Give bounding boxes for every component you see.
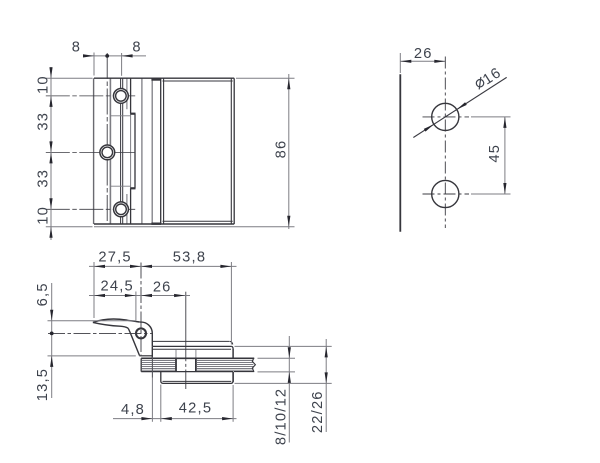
svg-text:26: 26 [153,279,172,295]
svg-text:8/10/12: 8/10/12 [273,388,289,445]
svg-text:26: 26 [414,46,433,62]
svg-text:8: 8 [72,39,81,55]
svg-text:4,8: 4,8 [121,402,145,418]
svg-text:13,5: 13,5 [35,368,51,401]
svg-text:10: 10 [35,206,51,225]
svg-text:22/26: 22/26 [310,390,326,433]
svg-text:42,5: 42,5 [179,401,212,417]
svg-text:27,5: 27,5 [98,250,131,266]
svg-text:24,5: 24,5 [101,278,134,294]
svg-text:33: 33 [35,112,51,131]
svg-text:53,8: 53,8 [173,250,206,266]
svg-text:33: 33 [35,169,51,188]
svg-text:8: 8 [132,39,141,55]
svg-text:86: 86 [274,140,290,159]
svg-text:6,5: 6,5 [35,282,51,306]
svg-text:10: 10 [35,75,51,94]
svg-text:45: 45 [487,144,503,163]
